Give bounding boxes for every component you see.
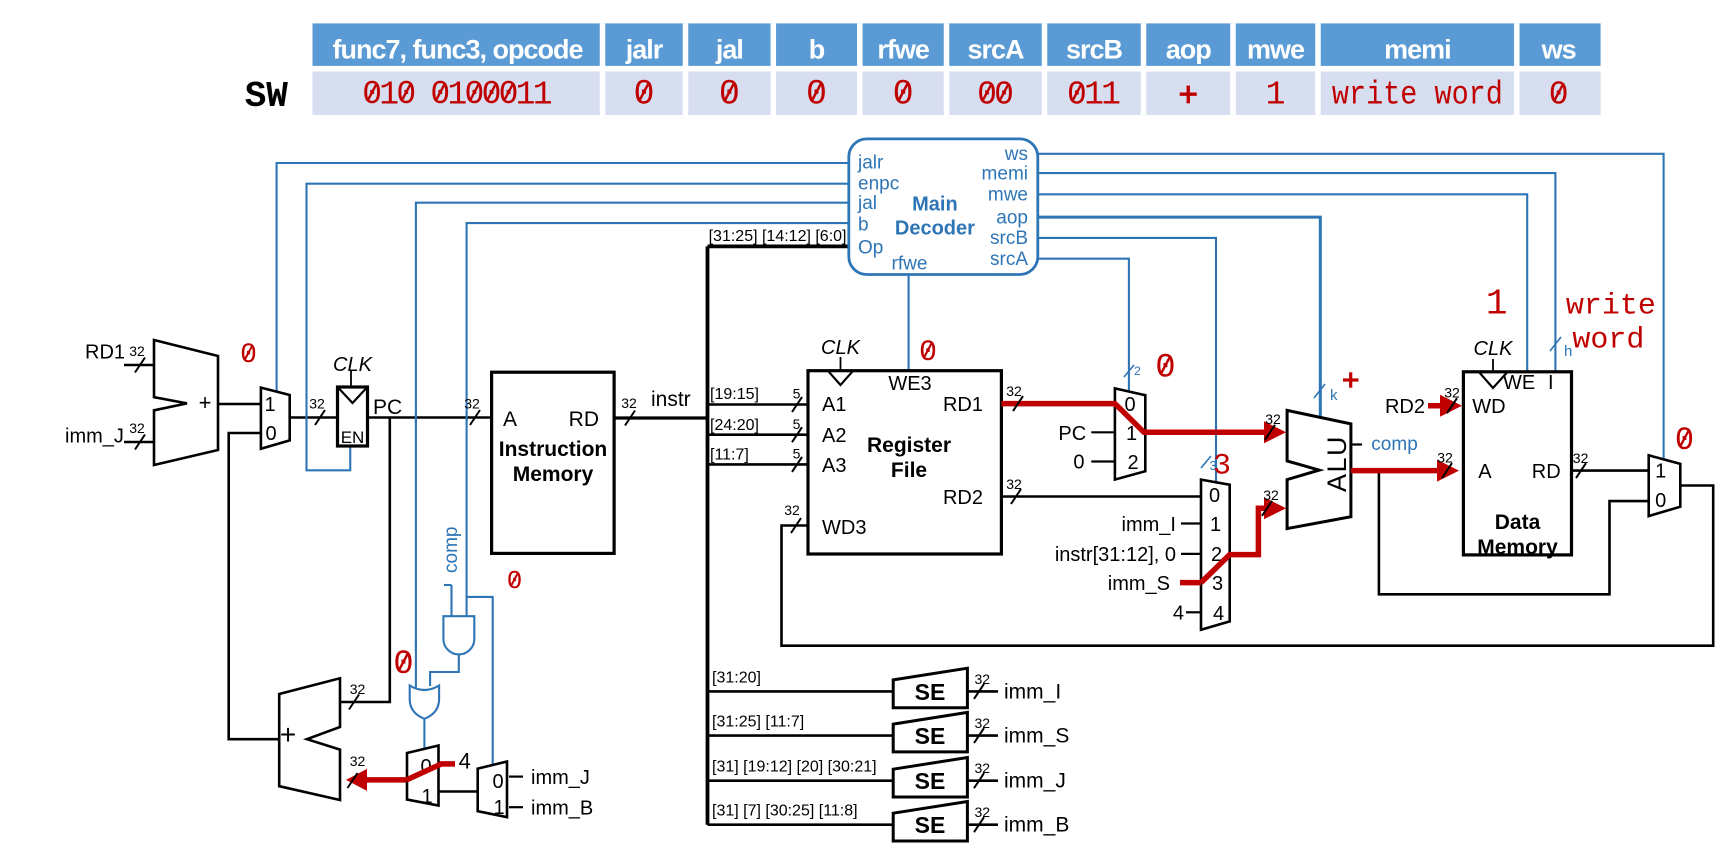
svg-text:RD2: RD2: [1385, 396, 1425, 418]
svg-text:4: 4: [1173, 603, 1184, 625]
svg-text:0: 0: [393, 646, 413, 684]
svg-text:Memory: Memory: [1477, 536, 1558, 559]
svg-text:b: b: [858, 215, 869, 236]
wire jal (decoder to OR gate): [416, 203, 849, 688]
wire adder A1 output to PC mux input 1: [218, 403, 261, 406]
gate G2 OR (jal or branch): [410, 686, 439, 719]
wire AND output to OR gate: [430, 655, 459, 686]
svg-text:32: 32: [129, 420, 145, 436]
svg-text:srcB: srcB: [990, 228, 1028, 249]
svg-text:write: write: [1566, 290, 1656, 324]
block instruction memory: [492, 372, 614, 553]
svg-text:instr: instr: [651, 388, 691, 411]
label PC input to srcA mux: [1058, 423, 1114, 445]
svg-text:4: 4: [459, 749, 471, 774]
svg-text:+: +: [199, 390, 212, 415]
svg-text:imm_J: imm_J: [65, 426, 124, 448]
wire OR output to branch mux select: [423, 719, 425, 749]
svg-text:jal: jal: [715, 35, 743, 65]
svg-text:32: 32: [784, 502, 800, 518]
svg-text:32: 32: [975, 804, 991, 820]
sign-extender SE1 output imm_I: [893, 668, 1061, 708]
wire instr bits to SE3 ([31] [19:12] [20] [30:21]): [708, 759, 894, 781]
svg-text:mwe: mwe: [1247, 35, 1305, 65]
wire memi (decoder to data memory I): [1038, 173, 1556, 372]
bus width 32 on ALU input B: [1262, 501, 1272, 516]
svg-text:RD1: RD1: [943, 394, 983, 416]
bus width 32 on branch adder input B: [348, 773, 358, 788]
label instr[31:12],0 input to srcB mux: [1055, 544, 1201, 566]
wire instr bits to SE1 ([31:20]): [708, 669, 894, 691]
wire ws (decoder to writeback mux select): [1038, 154, 1664, 460]
bus Op instr[31:25][14:12][6:0] to decoder: [708, 228, 849, 246]
svg-text:Main: Main: [912, 194, 958, 216]
svg-text:+: +: [280, 719, 296, 750]
svg-text:b: b: [809, 35, 825, 65]
svg-text:0: 0: [492, 771, 503, 793]
svg-text:[24:20]: [24:20]: [710, 417, 759, 434]
sign-extender SE3 output imm_J: [893, 758, 1066, 798]
svg-text:Memory: Memory: [513, 463, 594, 486]
svg-text:0: 0: [1155, 350, 1175, 388]
bus width 32 on RD1: [1013, 396, 1023, 411]
svg-text:32: 32: [129, 343, 145, 359]
svg-text:A1: A1: [822, 394, 846, 416]
wire data memory RD to writeback mux input 1: [1572, 450, 1649, 478]
svg-text:imm_J: imm_J: [1004, 770, 1066, 793]
svg-text:32: 32: [975, 715, 991, 731]
svg-text:PC: PC: [1058, 423, 1086, 445]
svg-text:rfwe: rfwe: [892, 254, 928, 275]
wire instr bits to SE2 ([31:25] [11:7]): [708, 714, 894, 736]
svg-text:5: 5: [793, 416, 801, 432]
bus width 2 on srcA select: [1124, 364, 1141, 378]
wire enpc (decoder to PC register EN): [307, 184, 849, 471]
svg-text:File: File: [891, 459, 927, 482]
bus width h on memi control: [1550, 337, 1572, 360]
wire writeback mux output to register file WD3: [782, 486, 1714, 646]
svg-text:imm_S: imm_S: [1004, 725, 1069, 748]
mux M4 writeback mux: [1649, 455, 1681, 516]
svg-text:[11:7]: [11:7]: [710, 447, 749, 464]
bus instr vertical distribution: [706, 246, 710, 824]
table header labels: [332, 35, 1575, 65]
svg-text:5: 5: [793, 386, 801, 402]
sign-extender SE4 output imm_B: [893, 802, 1069, 842]
svg-text:1: 1: [533, 76, 553, 113]
svg-text:Data: Data: [1495, 511, 1541, 534]
svg-text:3: 3: [1212, 573, 1223, 595]
svg-text:WE3: WE3: [888, 373, 931, 395]
mux M1 PC source mux: [261, 388, 290, 449]
svg-text:[31:25] [14:12] [6:0]: [31:25] [14:12] [6:0]: [709, 228, 847, 245]
sign-extender SE2 output imm_S: [893, 712, 1069, 752]
bus width 3 on srcB select: [1201, 456, 1217, 473]
wire RD2 to srcB mux input 0: [1001, 476, 1201, 504]
svg-text:RD: RD: [569, 408, 599, 431]
svg-text:0: 0: [1209, 485, 1220, 507]
svg-text:1: 1: [1486, 284, 1508, 325]
svg-text:RD: RD: [1532, 461, 1561, 483]
label RD1 input to PC adder: [85, 342, 154, 373]
active path RD2 to data memory WD: [1428, 395, 1462, 417]
svg-text:imm_B: imm_B: [531, 798, 593, 820]
svg-text:func7, func3, opcode: func7, func3, opcode: [332, 35, 583, 65]
svg-text:RD2: RD2: [943, 487, 983, 509]
svg-text:ws: ws: [1004, 144, 1028, 165]
svg-text:32: 32: [1263, 487, 1279, 503]
label imm_B input to imm mux: [509, 798, 593, 820]
svg-text:[19:15]: [19:15]: [710, 386, 759, 403]
svg-text:srcA: srcA: [967, 35, 1024, 65]
mux M2 srcA mux: [1115, 388, 1145, 479]
label imm_J input to imm mux: [509, 767, 590, 789]
wire instr output bus: [614, 388, 707, 426]
alu U2 ALU: [1287, 410, 1352, 528]
register PC: [333, 354, 402, 447]
svg-text:SE: SE: [915, 812, 946, 838]
svg-text:[31:25] [11:7]: [31:25] [11:7]: [712, 714, 804, 731]
svg-text:2: 2: [1127, 452, 1138, 474]
svg-text:1: 1: [421, 786, 432, 808]
decoder U1 Main Decoder: [849, 139, 1038, 275]
wire ALU result bypass to writeback mux input 0: [1379, 471, 1649, 595]
svg-text:comp: comp: [441, 527, 462, 573]
annotation memi=write word: [1566, 290, 1656, 358]
svg-text:1: 1: [1266, 76, 1286, 113]
svg-text:rfwe: rfwe: [877, 35, 930, 65]
wire PC mux to PC register: [290, 396, 338, 426]
active path imm_S to ALU input B: [1180, 497, 1286, 582]
svg-text:1: 1: [264, 394, 275, 416]
wire instr[11:7] to A3: [708, 446, 809, 472]
svg-text:SW: SW: [245, 76, 289, 117]
svg-text:SE: SE: [915, 679, 946, 705]
gate G1 AND (b and comp): [443, 616, 474, 654]
wire instr[19:15] to A1: [708, 386, 809, 412]
svg-text:3: 3: [1213, 450, 1231, 484]
adder A2 (next PC adder): [279, 678, 340, 800]
svg-text:mwe: mwe: [988, 185, 1028, 206]
mux M3 srcB mux: [1201, 480, 1230, 630]
svg-text:1: 1: [493, 797, 504, 819]
label constant 4 input to srcB mux: [1173, 603, 1201, 625]
svg-text:0: 0: [240, 340, 257, 371]
svg-text:I: I: [1548, 372, 1554, 394]
svg-text:aop: aop: [1166, 35, 1212, 65]
svg-text:32: 32: [1006, 476, 1022, 492]
svg-text:CLK: CLK: [821, 337, 862, 359]
table column separators: [603, 23, 1517, 115]
svg-text:2: 2: [1134, 364, 1141, 378]
active path ALU result to data memory A: [1351, 460, 1459, 482]
svg-text:comp: comp: [1371, 434, 1417, 455]
bus width 32 on ALU input A: [1265, 425, 1275, 440]
bus width 32 on data memory WD input: [1447, 398, 1457, 413]
label constant 0 input to srcA mux: [1073, 452, 1115, 474]
svg-text:0: 0: [265, 423, 276, 445]
svg-text:32: 32: [1437, 450, 1453, 466]
svg-text:0: 0: [1073, 452, 1084, 474]
table data row: [313, 72, 1601, 116]
svg-text:imm_J: imm_J: [531, 767, 590, 789]
svg-text:srcA: srcA: [990, 249, 1028, 270]
svg-text:32: 32: [309, 396, 325, 412]
svg-text:1: 1: [1101, 76, 1121, 113]
svg-text:0: 0: [919, 336, 937, 370]
svg-text:write word: write word: [1332, 76, 1503, 113]
label imm_J input to PC adder: [65, 420, 154, 450]
svg-text:SE: SE: [915, 768, 946, 794]
svg-text:imm_B: imm_B: [1004, 814, 1069, 837]
svg-text:A2: A2: [822, 425, 846, 447]
svg-text:memi: memi: [982, 163, 1028, 184]
svg-text:jal: jal: [857, 193, 877, 214]
svg-text:SE: SE: [915, 723, 946, 749]
active path RD1 to ALU input A: [1001, 404, 1286, 444]
svg-text:ALU: ALU: [1322, 435, 1352, 492]
svg-text:[31] [7] [30:25] [11:8]: [31] [7] [30:25] [11:8]: [712, 803, 858, 820]
svg-text:CLK: CLK: [1474, 338, 1515, 360]
block data memory: [1463, 338, 1571, 559]
svg-text:32: 32: [1573, 450, 1589, 466]
svg-text:Op: Op: [858, 237, 883, 258]
svg-text:CLK: CLK: [333, 354, 374, 376]
svg-text:jalr: jalr: [857, 153, 884, 174]
block register file: [808, 337, 1001, 554]
svg-text:WD3: WD3: [822, 517, 866, 539]
label comp output of ALU: [1351, 434, 1418, 455]
svg-text:A3: A3: [822, 455, 846, 477]
wire rfwe (decoder to register file WE3): [908, 275, 910, 371]
wire srcB (decoder to srcB mux select): [1038, 238, 1216, 482]
svg-text:imm_I: imm_I: [1004, 680, 1061, 703]
wire jalr (decoder to PC mux select): [277, 163, 849, 392]
svg-text:32: 32: [975, 671, 991, 687]
bus width 32 on data memory A input: [1442, 463, 1452, 478]
wire aop (decoder to ALU control): [1038, 217, 1321, 417]
svg-text:k: k: [1330, 387, 1338, 404]
svg-text:5: 5: [793, 446, 801, 462]
annotation aop=+: [1343, 372, 1359, 387]
svg-text:1: 1: [1210, 514, 1221, 536]
table data: func7 func3 opcode bits: [362, 76, 552, 113]
label imm_I input to srcB mux: [1122, 514, 1201, 536]
svg-text:32: 32: [975, 760, 991, 776]
wire PC branch down to branch adder: [340, 418, 390, 710]
wire imm mux output to branch mux input 1: [439, 790, 478, 793]
svg-text:jalr: jalr: [625, 35, 664, 65]
svg-text:imm_S: imm_S: [1108, 573, 1170, 595]
svg-text:32: 32: [350, 681, 366, 697]
svg-text:srcB: srcB: [1066, 35, 1123, 65]
svg-text:0: 0: [1655, 490, 1666, 512]
svg-text:32: 32: [621, 395, 637, 411]
wire instr[24:20] to A2: [708, 416, 809, 442]
wire instr bits to SE4 ([31] [7] [30:25] [11:8]): [708, 803, 894, 825]
svg-text:1: 1: [1655, 461, 1666, 483]
svg-text:Instruction: Instruction: [499, 438, 608, 461]
wire b (decoder to AND gate and imm mux select): [467, 223, 849, 764]
mux M6 imm_J/imm_B mux: [478, 762, 507, 820]
svg-text:4: 4: [1213, 603, 1224, 625]
svg-text:WE: WE: [1503, 372, 1535, 394]
svg-text:aop: aop: [996, 207, 1028, 228]
adder A1 (jalr target adder): [154, 340, 218, 465]
svg-text:enpc: enpc: [858, 174, 899, 195]
svg-text:32: 32: [464, 396, 480, 412]
active path constant 4 through branch mux to adder: [346, 764, 455, 791]
svg-text:word: word: [1572, 324, 1644, 358]
svg-text:Decoder: Decoder: [895, 217, 975, 239]
wire branch adder output to PC mux input 0: [229, 433, 280, 739]
wire PC to instruction memory: [368, 396, 492, 426]
wire mwe (decoder to data memory WE): [1038, 194, 1527, 371]
wire srcA (decoder to srcA mux select): [1038, 259, 1129, 392]
svg-text:instr[31:12], 0: instr[31:12], 0: [1055, 544, 1176, 566]
table data: aop=+: [1180, 92, 1197, 95]
svg-text:memi: memi: [1384, 35, 1451, 65]
svg-text:[31:20]: [31:20]: [712, 669, 761, 686]
svg-text:RD1: RD1: [85, 342, 125, 364]
svg-text:32: 32: [1006, 383, 1022, 399]
svg-text:A: A: [503, 408, 517, 431]
bus width k on aop control: [1314, 384, 1338, 404]
svg-text:32: 32: [350, 753, 366, 769]
table header row: [313, 23, 1601, 66]
svg-text:[31] [19:12] [20] [30:21]: [31] [19:12] [20] [30:21]: [712, 759, 877, 776]
svg-text:PC: PC: [373, 396, 402, 419]
svg-text:imm_I: imm_I: [1122, 514, 1176, 536]
svg-text:ws: ws: [1541, 35, 1576, 65]
svg-text:Register: Register: [867, 434, 951, 457]
svg-text:A: A: [1478, 461, 1492, 483]
svg-text:WD: WD: [1472, 396, 1505, 418]
svg-text:EN: EN: [341, 428, 365, 447]
mux M5 branch mux (4 / imm): [407, 746, 439, 809]
svg-text:h: h: [1564, 343, 1572, 360]
wire crossing patches (blue over black): [307, 412, 467, 651]
svg-text:32: 32: [1265, 411, 1281, 427]
label comp input to AND gate: [441, 527, 462, 616]
svg-text:32: 32: [1444, 385, 1460, 401]
